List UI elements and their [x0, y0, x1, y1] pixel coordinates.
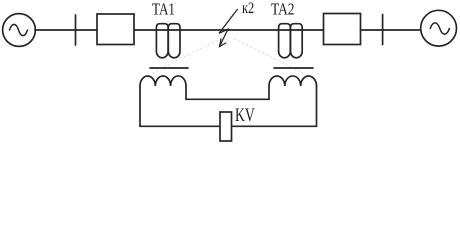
- current transformer TA2 primary loops: [279, 24, 303, 58]
- TA2 core bar: [274, 67, 313, 69]
- relay KV coil box: [220, 112, 232, 141]
- wire: G1 to breaker box 1: [35, 29, 97, 31]
- fault path dashed line right: [234, 39, 317, 81]
- TA2 secondary winding: [269, 76, 317, 86]
- generator G2 (right AC source): [421, 10, 457, 46]
- wire: TA1 secondary right leg down: [185, 86, 187, 99]
- wire: relay KV to bottom bus right: [232, 125, 317, 127]
- isolator tick 2: [382, 15, 384, 45]
- wire: TA1 secondary left leg down: [139, 86, 141, 126]
- svg-text:KV: KV: [235, 106, 255, 126]
- current transformer TA1 primary loops: [156, 24, 180, 58]
- wire: TA2 secondary right leg down: [316, 86, 318, 126]
- wire: breaker box 1 to breaker box 2 (main bus through TA1, k2, TA2): [134, 29, 324, 31]
- isolator tick 1: [75, 15, 77, 45]
- wire: bottom bus left to relay KV: [140, 125, 220, 127]
- generator G1 (left AC source): [3, 14, 36, 47]
- breaker box 1: [97, 14, 134, 45]
- svg-text:к2: к2: [242, 0, 254, 17]
- TA1 secondary winding: [140, 76, 186, 86]
- fault arrow k2 (lightning bolt): [219, 9, 237, 46]
- wire: breaker box 2 to G2: [361, 29, 421, 31]
- svg-text:TA2: TA2: [271, 0, 295, 19]
- fault path dashed line left: [150, 38, 222, 74]
- TA1 core bar: [150, 67, 188, 69]
- wire: TA2 secondary left leg down: [268, 86, 270, 99]
- wire: inner link TA1 to TA2 secondaries: [186, 98, 269, 100]
- breaker box 2: [324, 14, 361, 45]
- svg-text:TA1: TA1: [152, 0, 175, 19]
